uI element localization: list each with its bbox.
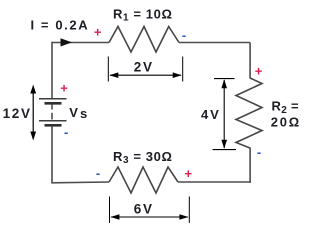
label 2V (134, 59, 154, 74)
svg-text:-: - (96, 165, 100, 180)
polarity - battery (64, 125, 68, 140)
svg-text:R3 = 30Ω: R3 = 30Ω (113, 149, 172, 166)
wire bottom horizontal right (178, 181, 251, 183)
svg-text:+: + (185, 166, 193, 181)
wire right vertical upper (249, 43, 251, 79)
svg-text:I = 0.2A: I = 0.2A (31, 18, 90, 33)
dimension tick right of 2V (182, 57, 184, 82)
svg-text:+: + (94, 24, 102, 39)
svg-text:4V: 4V (201, 107, 221, 122)
resistor R3 (109, 167, 178, 193)
svg-text:12V: 12V (3, 106, 32, 121)
polarity + top of R2 (255, 63, 263, 78)
svg-text:+: + (255, 63, 263, 78)
polarity - bottom of R2 (257, 144, 261, 159)
dimension tick top of 4V (214, 78, 235, 80)
battery Vs cell2 long plate (39, 120, 67, 122)
voltage arrow 12V double-headed (30, 85, 36, 141)
battery Vs cell1 short plate (45, 102, 62, 105)
label 6V (134, 201, 154, 216)
battery internal dashed link (51, 104, 53, 119)
dimension arrow line 2V (109, 72, 181, 78)
dimension tick right of 6V (188, 197, 190, 224)
current direction arrowhead (61, 38, 73, 46)
wire left vertical lower (52, 127, 109, 183)
dimension arrow line 6V (110, 214, 188, 220)
wire right vertical lower (249, 148, 251, 183)
svg-text:+: + (60, 81, 68, 96)
polarity - left of R3 (96, 165, 100, 180)
wire top-right horizontal (179, 42, 250, 44)
battery Vs cell2 short plate (45, 124, 62, 127)
svg-text:-: - (257, 144, 261, 159)
dimension tick left of 6V (109, 197, 111, 224)
svg-text:R2 =: R2 = (272, 99, 299, 116)
svg-text:2V: 2V (134, 59, 154, 74)
label R1 = 10ohm (113, 6, 172, 23)
label I = 0.2A (31, 18, 90, 33)
polarity + right of R3 (185, 166, 193, 181)
dimension tick bottom of 4V (213, 149, 237, 151)
dimension arrow line 4V (221, 79, 227, 148)
svg-text:R1 = 10Ω: R1 = 10Ω (113, 6, 172, 23)
label R2 = 20ohm (271, 99, 301, 130)
svg-text:20Ω: 20Ω (271, 115, 301, 130)
svg-text:6V: 6V (134, 201, 154, 216)
polarity + battery (60, 81, 68, 96)
polarity + left of R1 (94, 24, 102, 39)
label 4V (201, 107, 221, 122)
wire left vertical upper (51, 42, 53, 99)
wire top-left horizontal (52, 42, 109, 44)
resistor R2 (236, 78, 262, 148)
label 12V (3, 106, 32, 121)
resistor R1 (109, 27, 179, 53)
label R3 = 30ohm (113, 149, 172, 166)
dimension tick left of 2V (107, 57, 109, 82)
svg-text:-: - (182, 28, 186, 43)
polarity - right of R1 (182, 28, 186, 43)
svg-text:Vs: Vs (69, 105, 87, 121)
battery Vs cell1 long plate (39, 98, 67, 100)
label Vs (69, 105, 87, 121)
svg-text:-: - (64, 125, 68, 140)
